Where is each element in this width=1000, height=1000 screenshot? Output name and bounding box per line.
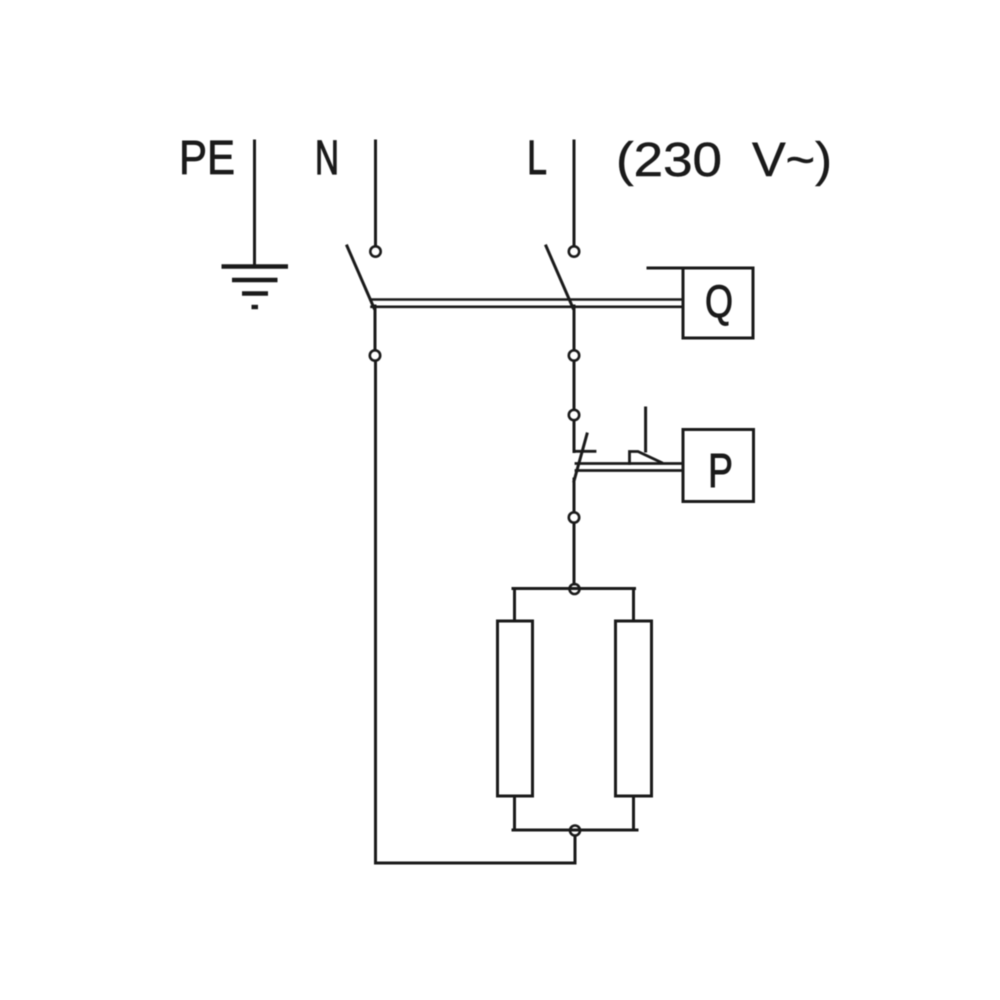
wire to heater node — [573, 523, 576, 584]
svg-text:V~): V~) — [752, 134, 832, 187]
svg-text:N: N — [315, 132, 339, 185]
wire L below blade — [573, 306, 576, 350]
linkage double line to Q — [371, 298, 684, 301]
svg-text:(230: (230 — [616, 134, 722, 187]
box Q top tail — [648, 267, 683, 270]
wire drop left bottom — [513, 796, 516, 830]
ground — [222, 267, 289, 308]
contact circle thermal upper — [569, 410, 579, 420]
contact circle L lower — [569, 350, 579, 360]
resistor element right — [616, 621, 652, 796]
box P — [683, 430, 754, 502]
wire N below blade — [374, 306, 377, 350]
node heater bottom — [570, 826, 580, 836]
switch blade Q pole N — [347, 246, 374, 308]
svg-text:Q: Q — [705, 276, 733, 327]
tick thermal contact — [576, 450, 596, 453]
wire L lead — [573, 141, 576, 245]
switch blade Q pole L — [546, 246, 573, 308]
stub fixed contact P — [644, 408, 647, 451]
flag P contact — [630, 452, 662, 464]
node heater top — [570, 584, 580, 594]
contact circle below P contact — [569, 512, 579, 522]
wire node to bottom — [574, 836, 577, 863]
wire drop right bottom — [632, 796, 635, 830]
wire fixed terminal — [573, 421, 576, 452]
wire below P contact — [573, 479, 576, 512]
svg-text:P: P — [708, 445, 733, 498]
wire PE lead — [253, 141, 256, 266]
resistor element left — [498, 621, 533, 796]
switch blade P contact — [574, 434, 587, 481]
wire heater top bus — [513, 587, 635, 590]
wire N lead — [374, 141, 377, 245]
linkage double line to P — [576, 462, 683, 465]
contact circle N lower — [370, 350, 380, 360]
box Q — [683, 268, 753, 338]
wire heater bottom bus — [513, 829, 637, 832]
svg-text:PE: PE — [179, 132, 235, 185]
wire drop right — [632, 589, 635, 622]
contact circle L upper — [569, 246, 579, 256]
contact circle N upper — [370, 246, 380, 256]
wire L middle — [573, 361, 576, 409]
svg-text:L: L — [527, 132, 547, 185]
wire N down left side — [376, 361, 576, 863]
wire drop left — [513, 589, 516, 622]
